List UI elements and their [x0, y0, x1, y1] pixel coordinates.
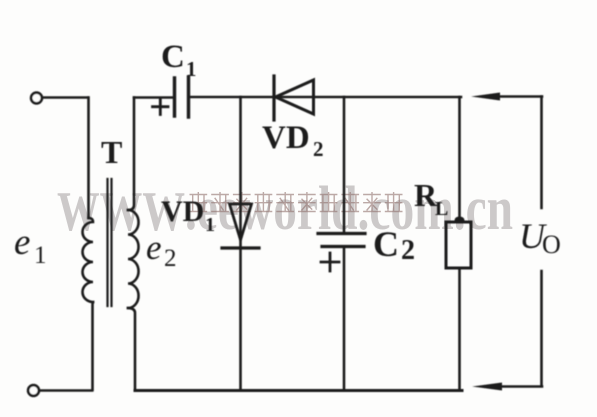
svg-text:O: O — [542, 230, 561, 259]
resistor RL body — [446, 222, 471, 268]
C1 plus sign — [153, 99, 169, 115]
diode VD1 cathode bar — [222, 246, 259, 249]
diode VD2 triangle — [276, 80, 314, 114]
wire RL branch lower — [458, 268, 461, 390]
svg-text:C: C — [161, 39, 185, 75]
svg-text:2: 2 — [164, 245, 177, 272]
wire VD1 branch upper — [239, 97, 242, 248]
svg-text:2: 2 — [401, 235, 415, 266]
wire primary upper lead — [87, 98, 90, 219]
wire bottom-left — [39, 389, 92, 392]
svg-text:T: T — [101, 134, 122, 170]
junction dot RL top — [455, 217, 465, 224]
transformer T primary winding — [83, 218, 93, 302]
diode VD1 triangle — [230, 204, 252, 240]
wire top-left to transformer — [42, 96, 88, 99]
watermark www.eeworld.com.cn — [57, 175, 513, 243]
terminal bottom-left — [28, 385, 39, 396]
wire C2 branch lower — [343, 247, 346, 391]
svg-text:1: 1 — [205, 214, 215, 236]
transformer core — [108, 179, 112, 306]
svg-text:1: 1 — [186, 57, 197, 81]
arrow bottom right — [497, 385, 542, 388]
terminal top-left — [31, 93, 42, 104]
transformer T secondary winding — [128, 210, 139, 308]
watermark chinese company name — [190, 192, 403, 212]
wire top rail C1 to corner — [189, 96, 461, 99]
svg-text:VD: VD — [262, 120, 310, 156]
wire bottom rail — [135, 389, 462, 392]
wire top rail left of C1 — [134, 96, 174, 99]
diode VD2 cathode bar — [272, 76, 275, 120]
C2 plus sign — [321, 253, 339, 271]
capacitor C1 plates — [175, 77, 189, 117]
wire C2 branch upper — [343, 97, 346, 233]
svg-text:e: e — [14, 222, 30, 263]
capacitor C2 plates — [318, 234, 365, 247]
wire secondary upper lead — [128, 98, 134, 211]
wire secondary lower lead — [128, 308, 135, 390]
wire right measure line — [540, 97, 543, 387]
svg-text:C: C — [373, 224, 399, 264]
svg-text:1: 1 — [34, 242, 47, 269]
svg-text:2: 2 — [313, 137, 324, 161]
wire primary lower lead — [91, 302, 94, 390]
svg-text:VD: VD — [161, 195, 204, 228]
arrow top right — [497, 95, 542, 98]
svg-text:L: L — [435, 198, 448, 220]
wire RL branch upper — [458, 97, 461, 222]
wire VD1 branch lower — [239, 248, 242, 390]
svg-text:e: e — [146, 228, 162, 267]
